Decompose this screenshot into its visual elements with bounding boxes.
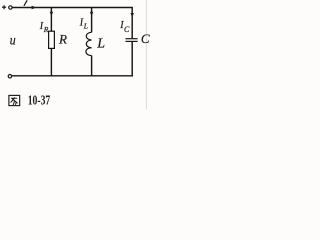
top terminal — [9, 6, 12, 9]
bottom terminal — [8, 75, 11, 78]
wire: L branch upper — [91, 8, 93, 33]
svg-text:C: C — [141, 31, 150, 46]
arrow I_L — [90, 12, 93, 17]
svg-text:R: R — [43, 25, 49, 34]
label i — [24, 1, 27, 6]
wire: top horizontal — [12, 7, 132, 9]
plus sign — [2, 5, 6, 9]
wire: right side upper (C branch) — [131, 7, 133, 38]
wire: R branch lower — [50, 48, 52, 75]
caption 图 10-37 — [9, 92, 50, 108]
arrow I_C — [131, 13, 134, 18]
svg-text:R: R — [58, 32, 67, 47]
resistor R — [49, 31, 55, 48]
wire: R branch upper — [50, 8, 52, 32]
page rule — [145, 0, 147, 109]
arrow I_R — [50, 12, 53, 17]
wire: bottom horizontal — [12, 75, 133, 77]
inductor L — [86, 32, 92, 55]
current arrow i — [32, 6, 37, 9]
wire: C branch lower — [131, 41, 133, 75]
svg-text:10-37: 10-37 — [28, 92, 51, 108]
svg-text:L: L — [83, 21, 88, 30]
svg-text:u: u — [10, 33, 16, 48]
wire: L branch lower — [91, 56, 93, 76]
svg-text:C: C — [124, 25, 130, 34]
capacitor C — [126, 39, 138, 42]
svg-text:L: L — [96, 36, 105, 51]
